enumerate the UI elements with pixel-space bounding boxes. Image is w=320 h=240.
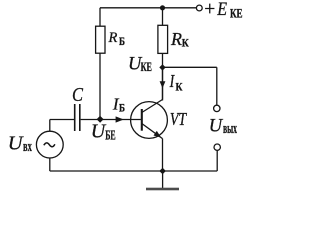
svg-text:C: C — [72, 84, 83, 106]
svg-text:I: I — [169, 71, 175, 91]
svg-text:КЕ: КЕ — [141, 59, 152, 74]
svg-text:вх: вх — [23, 139, 32, 155]
svg-text:Б: Б — [119, 103, 125, 115]
svg-text:+: + — [204, 0, 215, 20]
svg-text:Б: Б — [119, 34, 125, 48]
svg-text:R: R — [108, 30, 118, 46]
svg-text:VT: VT — [170, 109, 187, 129]
svg-text:вых: вых — [223, 121, 237, 137]
svg-text:U: U — [209, 116, 224, 136]
svg-text:U: U — [8, 133, 24, 155]
svg-text:К: К — [182, 38, 190, 50]
svg-text:R: R — [170, 29, 182, 49]
svg-text:К: К — [176, 82, 184, 94]
svg-text:E: E — [216, 0, 227, 20]
svg-text:КЕ: КЕ — [230, 6, 243, 20]
svg-text:БЕ: БЕ — [105, 128, 116, 143]
